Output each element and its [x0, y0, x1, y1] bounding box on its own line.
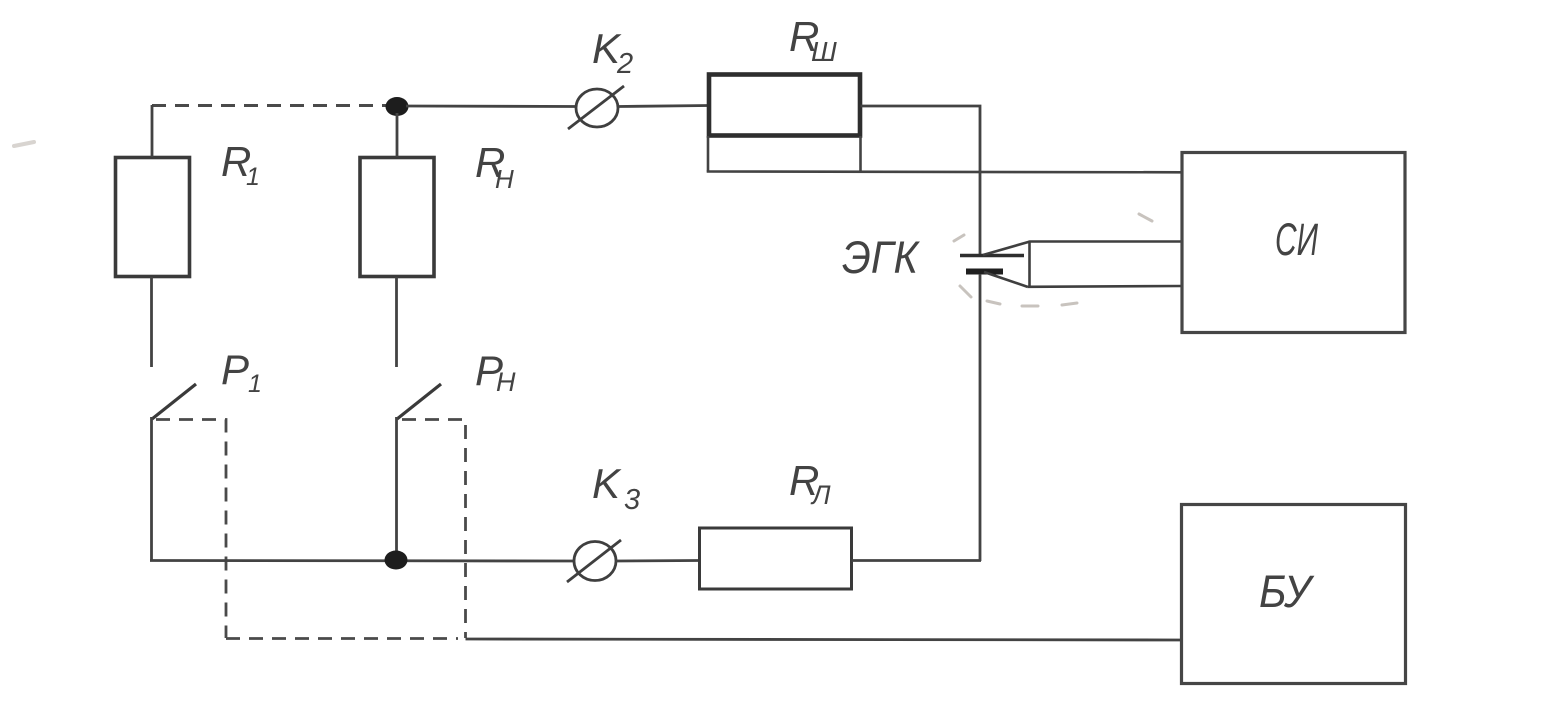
svg-text:СИ: СИ [1275, 214, 1319, 265]
wire: R1 top lead [151, 105, 154, 157]
wire: K2 to Rsh [618, 106, 709, 107]
svg-text:Л: Л [810, 480, 831, 510]
svg-text:Н: Н [495, 164, 514, 194]
wire: dashed link from R1 top to node A [152, 104, 388, 107]
scan smudge [14, 142, 34, 146]
svg-text:1: 1 [248, 370, 262, 398]
spark marks (faint) [954, 214, 1152, 306]
wire: Rsh lower terminal to SI block [707, 170, 1181, 173]
resistor Rl [700, 528, 852, 589]
svg-text:3: 3 [624, 484, 640, 516]
svg-text:2: 2 [616, 48, 633, 80]
wire: control line to BU [466, 639, 1182, 640]
mechanical link of P1 (dashed) [156, 420, 226, 639]
spark gap EGK electrodes [960, 256, 1024, 272]
svg-text:ЭГК: ЭГК [842, 232, 920, 283]
switch K2 (circle with slash) [568, 86, 624, 129]
wire: Rsh right to corner, down to spark gap [861, 106, 981, 254]
wire: top rail from node A to switch K2 [406, 105, 578, 108]
svg-text:1: 1 [246, 163, 260, 191]
relay contact P1 (blade) [152, 384, 196, 419]
svg-text:БУ: БУ [1259, 566, 1315, 617]
wire: Rn top lead from node A [396, 113, 399, 157]
relay contact Pn (blade) [397, 384, 441, 419]
probe nozzle into spark gap (to SI) [983, 241, 1181, 289]
svg-text:K: K [592, 460, 622, 507]
wire: K3 to Rl [616, 559, 699, 562]
resistor Rn [360, 158, 434, 277]
svg-text:P: P [221, 346, 249, 393]
node A (top junction dot) [386, 97, 409, 116]
wire: P1 pivot down to bottom rail [150, 417, 153, 561]
svg-text:Ш: Ш [811, 36, 837, 67]
block SI [1182, 153, 1405, 333]
resistor R1 [116, 158, 190, 277]
block BU [1182, 505, 1406, 684]
node B (bottom junction dot) [385, 551, 408, 570]
wire: bottom rail left segment [150, 559, 576, 562]
resistor Rsh (shunt, bold box with lower thin box) [708, 75, 861, 172]
switch K3 (circle with slash) [567, 540, 621, 582]
wire: spark gap down to bottom rail [979, 274, 982, 561]
wire: Rn bottom lead to contact Pn [395, 277, 398, 367]
wire: R1 bottom lead to contact P1 [150, 277, 153, 367]
mechanical link of Pn (dashed) [402, 420, 466, 639]
wire: Pn pivot down to bottom junction [395, 417, 398, 561]
wire: Rl right to spark gap riser [852, 559, 982, 562]
svg-text:Н: Н [496, 367, 516, 397]
mechanical link bottom dashed run [226, 637, 458, 640]
